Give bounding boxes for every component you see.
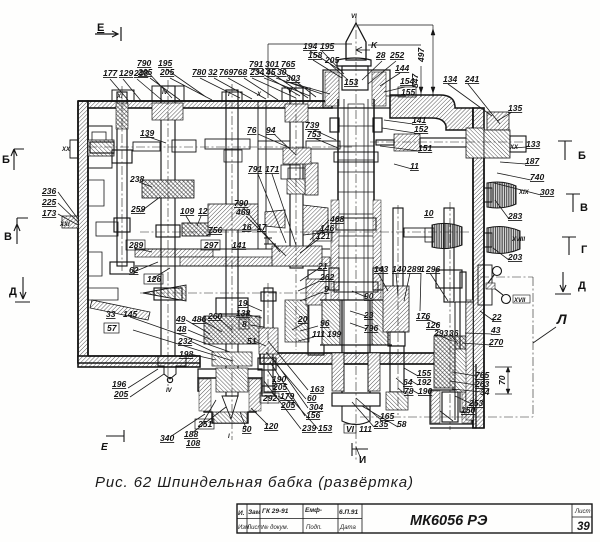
svg-text:10: 10 [424,208,434,218]
svg-text:469: 469 [235,207,250,217]
svg-text:50: 50 [242,424,252,434]
svg-text:№ докум.: № докум. [262,524,288,531]
svg-text:297: 297 [203,240,219,250]
svg-text:177: 177 [103,68,118,78]
svg-text:20: 20 [297,314,308,324]
svg-text:270: 270 [488,337,503,347]
svg-text:153: 153 [318,423,332,433]
svg-text:Е: Е [101,442,108,453]
svg-text:769: 769 [219,67,233,77]
svg-text:51: 51 [247,336,257,346]
svg-text:Лист: Лист [574,509,590,515]
svg-text:260: 260 [207,311,222,321]
svg-text:190: 190 [418,386,432,396]
svg-text:70: 70 [497,375,507,385]
svg-text:138: 138 [236,308,250,318]
svg-text:289: 289 [128,240,143,250]
svg-text:141: 141 [232,240,246,250]
svg-text:205: 205 [280,400,295,410]
svg-text:135: 135 [508,103,522,113]
svg-text:Дата: Дата [339,525,356,531]
svg-text:111: 111 [312,329,325,339]
svg-text:796: 796 [364,323,378,333]
svg-text:292: 292 [262,393,277,403]
svg-text:151: 151 [418,143,432,153]
svg-text:239: 239 [301,423,316,433]
svg-text:57: 57 [107,323,118,333]
svg-text:111: 111 [359,424,372,434]
svg-text:225: 225 [41,197,56,207]
svg-text:19: 19 [238,298,248,308]
svg-text:173: 173 [42,208,56,218]
svg-text:144: 144 [395,63,409,73]
svg-text:XX: XX [509,145,519,151]
svg-text:36: 36 [449,328,459,338]
svg-text:303: 303 [540,187,554,197]
svg-text:740: 740 [530,172,544,182]
svg-text:753: 753 [307,129,321,139]
svg-text:108: 108 [186,438,200,448]
svg-text:196: 196 [112,379,126,389]
svg-text:205: 205 [113,389,128,399]
svg-text:22: 22 [491,312,502,322]
svg-text:234: 234 [249,67,264,77]
svg-text:296: 296 [425,264,440,274]
svg-text:232: 232 [177,336,192,346]
svg-text:Б: Б [578,150,586,162]
svg-text:486: 486 [191,314,206,324]
svg-text:Г: Г [581,244,588,256]
svg-text:В: В [580,202,588,214]
svg-text:11: 11 [410,161,419,171]
svg-text:Д: Д [9,286,17,298]
svg-text:241: 241 [464,74,479,84]
svg-text:VI: VI [351,14,357,20]
svg-text:XIX: XIX [518,190,530,196]
svg-text:21: 21 [317,261,328,271]
svg-text:32: 32 [208,67,218,77]
svg-text:205: 205 [159,67,174,77]
svg-text:109: 109 [180,206,194,216]
svg-text:Емф-: Емф- [305,507,322,514]
svg-text:768: 768 [233,67,247,77]
svg-text:756: 756 [208,225,222,235]
svg-text:43: 43 [490,325,501,335]
svg-text:126: 126 [147,274,161,284]
svg-text:IV: IV [162,90,169,96]
svg-text:153: 153 [344,77,358,87]
svg-text:150: 150 [461,405,475,415]
svg-text:203: 203 [507,252,522,262]
svg-text:Б: Б [2,154,10,166]
svg-text:39: 39 [577,521,590,533]
svg-text:23: 23 [363,310,374,320]
svg-text:303: 303 [286,73,300,83]
svg-text:236: 236 [41,186,56,196]
svg-text:134: 134 [443,74,457,84]
svg-text:171: 171 [265,164,279,174]
svg-text:293: 293 [433,328,448,338]
svg-text:78: 78 [404,386,414,396]
svg-text:187: 187 [525,156,540,166]
svg-text:И.: И. [238,510,245,517]
svg-text:156: 156 [306,410,320,420]
svg-text:129: 129 [119,68,133,78]
svg-text:34: 34 [480,387,490,397]
svg-text:62: 62 [129,265,139,275]
svg-text:45: 45 [265,67,276,77]
svg-text:76: 76 [247,125,257,135]
svg-text:198: 198 [179,349,193,359]
svg-text:133: 133 [526,139,540,149]
svg-text:8: 8 [242,319,247,329]
svg-text:ГК 29-91: ГК 29-91 [262,508,289,515]
svg-text:259: 259 [130,204,145,214]
svg-text:K: K [371,40,378,50]
svg-text:48: 48 [176,324,187,334]
svg-text:143: 143 [374,264,388,274]
svg-text:205: 205 [272,382,287,392]
svg-text:791: 791 [248,164,262,174]
svg-text:251: 251 [197,419,212,429]
svg-text:145: 145 [123,309,137,319]
svg-text:IV: IV [166,388,173,394]
svg-text:262: 262 [319,272,334,282]
svg-text:497: 497 [416,47,426,63]
svg-text:XXI: XXI [59,222,70,228]
svg-text:В: В [4,231,12,243]
svg-text:252: 252 [389,50,404,60]
svg-text:VI: VI [346,424,355,434]
svg-text:6.П.91: 6.П.91 [339,509,359,516]
svg-text:Е: Е [97,22,104,34]
svg-text:139: 139 [140,128,154,138]
svg-text:16: 16 [242,222,252,232]
svg-text:340: 340 [160,433,174,443]
svg-text:Л: Л [556,311,567,327]
svg-text:90: 90 [364,291,374,301]
svg-text:49: 49 [175,314,186,324]
svg-text:121: 121 [316,231,330,241]
svg-text:140: 140 [392,264,406,274]
svg-text:МК6056 РЭ: МК6056 РЭ [410,513,488,529]
svg-text:17: 17 [257,222,268,232]
svg-text:205: 205 [137,67,152,77]
svg-text:283: 283 [507,211,522,221]
svg-text:9: 9 [324,284,329,294]
svg-text:XI: XI [116,94,123,100]
svg-text:120: 120 [264,421,278,431]
svg-text:Д: Д [578,280,586,292]
svg-text:33: 33 [106,309,116,319]
svg-text:847: 847 [410,73,420,88]
svg-text:Зам: Зам [248,509,261,516]
svg-text:238: 238 [129,174,144,184]
svg-text:1: 1 [420,264,425,274]
svg-text:152: 152 [414,124,428,134]
svg-text:XX: XX [61,147,71,153]
svg-text:199: 199 [327,329,341,339]
svg-text:12: 12 [198,206,208,216]
svg-text:96: 96 [320,318,330,328]
svg-text:94: 94 [266,125,276,135]
svg-text:205: 205 [324,55,339,65]
svg-text:Лист: Лист [246,525,262,531]
svg-text:780: 780 [192,67,206,77]
svg-text:XVIII: XVIII [511,237,525,243]
svg-text:И: И [359,455,366,466]
svg-text:58: 58 [397,419,407,429]
svg-text:Рис. 62 Шпиндельная бабка (: Рис. 62 Шпиндельная бабка (развёртка) [95,474,413,491]
svg-text:Подп.: Подп. [306,525,322,531]
svg-text:165: 165 [380,411,394,421]
svg-text:28: 28 [375,50,386,60]
svg-text:158: 158 [308,50,322,60]
